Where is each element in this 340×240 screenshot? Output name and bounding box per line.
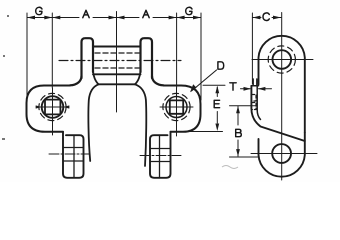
node label D xyxy=(218,62,224,69)
node right lobe outline xyxy=(171,86,201,132)
wire: D leader xyxy=(192,70,217,91)
wire: dim line A left xyxy=(52,17,116,19)
node label G2 xyxy=(186,7,192,14)
wire: B dimension xyxy=(237,107,239,157)
node tab square holes (hidden) xyxy=(252,95,256,110)
node right ear: right bushing end xyxy=(141,38,153,78)
node label A2 xyxy=(143,10,149,17)
node bottom hole (side view) xyxy=(272,144,291,163)
wire: top dim extension lines xyxy=(26,13,28,97)
node arrows G left xyxy=(27,16,35,20)
node plate top edges xyxy=(44,85,70,87)
wire: left ear flare to plate xyxy=(70,76,82,85)
node label A1 xyxy=(83,10,89,17)
node arrows E xyxy=(215,86,219,94)
node arrows B xyxy=(236,106,240,114)
node arrows A right xyxy=(117,16,125,20)
node label G1 xyxy=(36,7,42,14)
wire: left hole centerlines xyxy=(52,88,54,135)
node label T xyxy=(230,83,236,90)
wire: right foot centerline xyxy=(140,155,181,157)
wire: dim line G right xyxy=(177,17,201,19)
wire: dim line A right xyxy=(117,17,177,19)
wire: vertical centerline of part xyxy=(116,12,118,113)
node bent tab (side section) xyxy=(253,79,257,86)
wire: side view vertical centerline xyxy=(281,13,283,181)
wire: bottom hole horizontal centerline xyxy=(251,153,317,155)
node left hole: square hole with bolt circle xyxy=(42,96,64,118)
node arrows at left hole diameter xyxy=(36,105,42,108)
node side plate outline xyxy=(259,36,305,133)
scan specks xyxy=(2,15,238,169)
wire: pin horizontal centerline (dash-dot) xyxy=(59,60,181,62)
node right hole: square hole with bolt circle xyxy=(166,97,187,118)
wire: E dimension xyxy=(216,87,218,123)
node top hole (side view) xyxy=(273,50,292,69)
arrowheads xyxy=(27,16,281,157)
wire: dim line G left xyxy=(27,17,52,19)
wire: left foot centerline xyxy=(49,153,90,155)
node arrows T xyxy=(244,87,252,91)
node right foot: bent tab with bolt xyxy=(150,132,171,178)
wire: top hole horizontal centerline xyxy=(252,59,313,61)
node label B xyxy=(236,129,242,136)
labels drawn as stroke paths xyxy=(36,7,270,136)
node left foot: bent tab with bolt xyxy=(63,132,84,178)
node arrows C xyxy=(252,16,260,20)
wire: C dimension ext + line xyxy=(251,13,253,84)
node trapezoid hump: center tent over barrel xyxy=(99,83,136,85)
node barrel: chain bushing barrel between ears xyxy=(93,46,141,48)
node left lobe outline xyxy=(27,86,64,132)
node left ear: left bushing end xyxy=(82,38,94,78)
node label E xyxy=(214,100,219,107)
wire: T dimension xyxy=(241,88,272,90)
wire: right ear flare to plate xyxy=(152,76,164,85)
node arrow D leader xyxy=(190,84,197,92)
node label C xyxy=(263,13,269,21)
node arrows A left xyxy=(52,16,60,20)
wire: right hole centerlines xyxy=(176,88,178,136)
node arrows G right xyxy=(177,16,185,20)
